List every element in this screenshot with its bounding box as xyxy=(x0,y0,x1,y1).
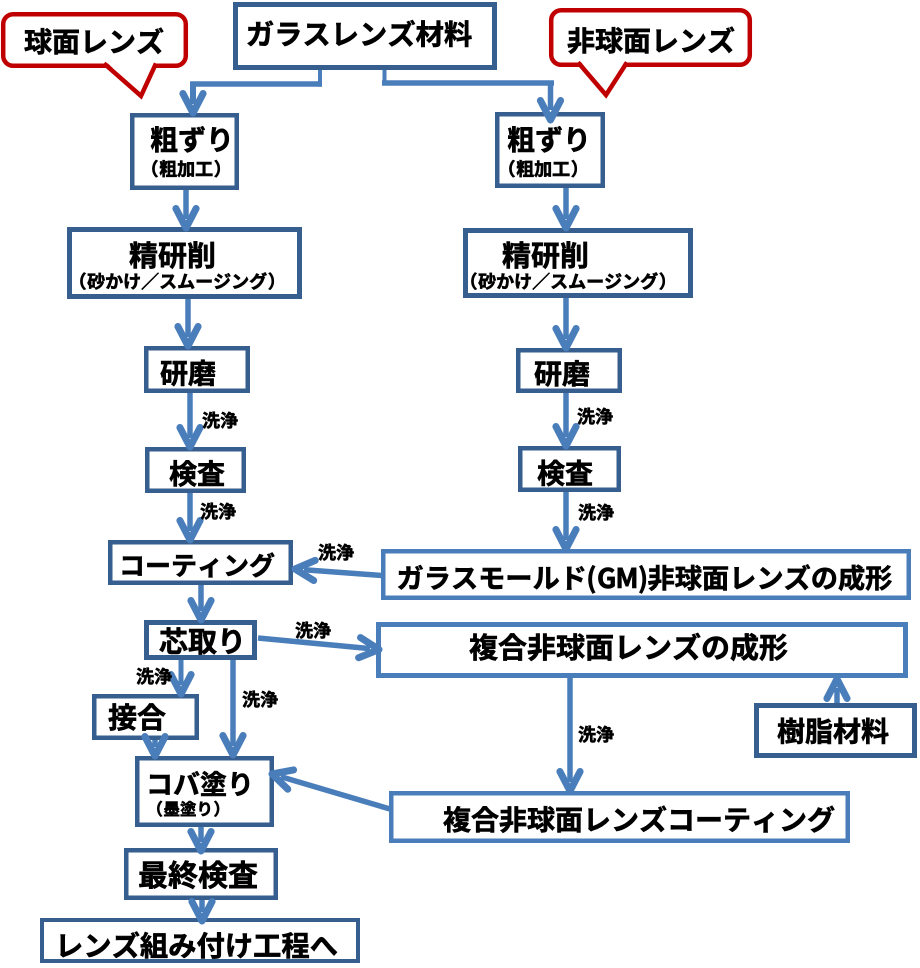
senjou: centering-edge paint xyxy=(243,691,278,708)
box: edge paint xyxy=(137,758,272,825)
label: aspherical lens xyxy=(568,27,735,54)
box: centering xyxy=(147,623,255,658)
arrow: fine-grind L to polish L xyxy=(185,299,191,337)
label: polish R xyxy=(535,360,590,387)
label: coating xyxy=(123,553,275,578)
box: fine grind R xyxy=(466,231,691,296)
arrow: centering to compound molding (senjou) xyxy=(258,638,370,649)
arrow: inspect R to GM molding (senjou) xyxy=(563,492,569,540)
arrow: edge-paint to final inspect xyxy=(198,827,204,842)
label: rough grind R xyxy=(508,126,586,152)
senjou: centering-compound molding xyxy=(296,622,331,639)
label: rough grind sub L xyxy=(152,160,219,177)
box: polish L xyxy=(146,348,248,391)
label: rough grind sub R xyxy=(509,160,576,177)
arrow: bonding to edge-paint xyxy=(152,740,158,747)
arrow: centering to edge-paint long (senjou) xyxy=(230,660,236,746)
label: edge paint sub xyxy=(157,801,219,817)
callout: spherical lens (red bubble) xyxy=(3,14,186,66)
arrow: coating to centering xyxy=(198,585,204,611)
box: rough grind L xyxy=(132,115,237,188)
label: resin material xyxy=(778,718,889,744)
box: GM aspherical lens molding xyxy=(383,551,909,598)
label: compound molding xyxy=(470,633,788,661)
arrow: fine-grind R to polish R xyxy=(563,298,569,339)
box: compound aspherical lens molding xyxy=(379,625,906,676)
label: compound coating xyxy=(443,806,834,833)
arrow: inspect L to coating (senjou) xyxy=(187,493,193,531)
box: glass lens material (top) xyxy=(236,5,495,68)
senjou: inspect L-coating xyxy=(201,503,236,520)
label: fine grind R xyxy=(503,241,587,268)
wire: top box to left branch elbow xyxy=(318,70,322,87)
arrow: polish L to inspect L (senjou) xyxy=(187,393,193,438)
senjou: compound molding-coating xyxy=(579,726,614,743)
label: fine grind sub R xyxy=(471,272,664,289)
label: inspect L xyxy=(170,460,225,487)
label: fine grind sub L xyxy=(80,272,273,289)
box: compound aspherical lens coating xyxy=(391,793,848,841)
arrow: rough-grind R to fine-grind R xyxy=(563,188,569,219)
label: to assembly xyxy=(61,932,338,959)
arrow: GM molding to coating (senjou) xyxy=(304,570,382,576)
arrow: resin material up to compound molding xyxy=(834,688,840,703)
senjou: polish L-inspect L xyxy=(203,412,238,429)
wire: top box to right branch elbow xyxy=(383,70,387,86)
label: spherical lens xyxy=(25,28,164,55)
box: fine grind L xyxy=(70,230,300,297)
label: rough grind L xyxy=(151,126,229,152)
label: inspect R xyxy=(538,460,593,487)
label: edge paint xyxy=(150,771,249,796)
arrow: rough-grind L to fine-grind L xyxy=(183,190,189,219)
label: GM molding xyxy=(398,564,891,593)
senjou: GM-coating xyxy=(319,544,354,561)
label: fine grind L xyxy=(130,241,214,268)
box: rough grind R xyxy=(497,114,603,186)
box: inspect R xyxy=(520,448,619,490)
arrow: centering to bonding (senjou) xyxy=(179,660,184,685)
box: to lens assembly process xyxy=(42,920,358,961)
box: final inspection xyxy=(126,850,276,898)
label: polish L xyxy=(161,360,216,387)
label: centering xyxy=(160,627,241,654)
arrow: compound coating to edge-paint xyxy=(281,777,390,809)
arrow: polish R to inspect R (senjou) xyxy=(563,393,569,437)
box: polish R xyxy=(518,350,620,391)
label: glass lens material xyxy=(248,20,472,47)
box: resin material xyxy=(757,706,915,756)
label: final inspection xyxy=(139,861,257,890)
box: bonding xyxy=(94,696,197,738)
box: inspect L xyxy=(147,449,244,491)
arrow: final inspect to assembly xyxy=(199,900,205,912)
arrow: compound molding to compound coating (senjou) xyxy=(567,678,573,782)
label: bonding xyxy=(109,703,166,730)
box: coating xyxy=(110,542,291,583)
callout: aspherical lens (red bubble) xyxy=(551,10,750,65)
senjou: centering-bonding xyxy=(137,668,172,685)
senjou: inspect R-GM xyxy=(579,504,614,521)
senjou: polish R-inspect R xyxy=(578,408,613,425)
